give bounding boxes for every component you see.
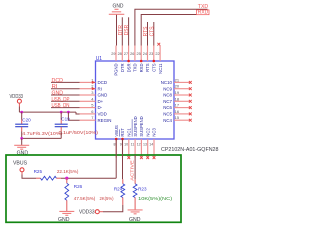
lead R24 top [122, 179, 124, 184]
svg-text:GND: GND [129, 217, 141, 223]
wire SUSPENDb pin down to R23 [134, 155, 136, 179]
lead C19 bottom [60, 127, 62, 132]
resistor R23 [133, 184, 137, 198]
svg-text:17: 17 [175, 103, 180, 108]
ground symbol top (inverted) [109, 9, 125, 14]
svg-text:12: 12 [137, 143, 141, 147]
lead C20 top [21, 120, 23, 125]
power port circle VBUS [20, 168, 24, 172]
pin 28 DTR stub [121, 46, 123, 62]
svg-text:R23: R23 [138, 186, 147, 191]
ground symbol R23 [128, 210, 143, 214]
pin 27 DSR stub [128, 46, 130, 62]
junction dot VBUS pin [115, 138, 118, 141]
wire rail step to VDD pin [76, 112, 80, 114]
junction C19 tap [60, 111, 63, 114]
capacitor C20 [15, 124, 28, 127]
wire GND [51, 94, 80, 96]
pin 24 RTS stub [147, 46, 149, 62]
svg-text:NC6: NC6 [163, 105, 172, 110]
svg-text:VDD33: VDD33 [10, 94, 24, 100]
wire DTR [121, 17, 123, 45]
pin 16 NC5 stub [174, 113, 190, 115]
wire C19 top [60, 112, 62, 119]
svg-text:14: 14 [149, 143, 153, 147]
svg-text:REGIN: REGIN [98, 118, 112, 123]
wire C20 bottom [21, 132, 23, 139]
wire USB_DP [51, 100, 80, 102]
overline SUSPENDb (active low) [131, 119, 133, 136]
lead R25 left [36, 177, 41, 179]
svg-text:R24: R24 [114, 186, 123, 191]
svg-text:RTS: RTS [145, 63, 150, 72]
wire C19 bottom [60, 132, 62, 139]
svg-text:26: 26 [130, 52, 134, 56]
wire REGIN jog [68, 112, 79, 120]
svg-text:27: 27 [124, 52, 128, 56]
pin 15 NC4 stub [174, 119, 190, 121]
pin 20 NC9 stub [174, 88, 190, 90]
svg-text:GND: GND [52, 91, 64, 97]
svg-text:18: 18 [175, 96, 180, 101]
svg-text:NC3: NC3 [152, 128, 157, 137]
arrowhead pin 1 DCD [92, 81, 96, 84]
svg-text:2K(5%): 2K(5%) [100, 196, 114, 201]
lead C19 top [60, 120, 62, 125]
net label RXD box [196, 10, 209, 15]
svg-text:NC7: NC7 [163, 99, 172, 104]
wire to gnd symbol [21, 138, 23, 145]
svg-text:PGND: PGND [114, 64, 119, 76]
svg-text:47.5K(5%): 47.5K(5%) [74, 196, 96, 201]
wire TXD [135, 9, 208, 45]
pin 19 NC8 stub [174, 94, 190, 96]
pin 3 GND stub [80, 94, 96, 96]
pin 6 VDD stub [80, 113, 96, 115]
svg-text:GND: GND [58, 217, 70, 223]
junction dot RST pin [121, 138, 124, 141]
resistor R25 [41, 176, 57, 180]
wire VDD33 stem [18, 107, 20, 113]
svg-text:16: 16 [175, 109, 180, 114]
junction dot CTS pin [153, 60, 156, 63]
pin 25 RXD stub [140, 46, 142, 62]
svg-text:8: 8 [114, 143, 116, 147]
wire RI [51, 88, 80, 90]
pin 5 D- stub [80, 107, 96, 109]
junction C20 tap [20, 111, 23, 114]
svg-text:RST: RST [120, 128, 125, 137]
lead VBUS port [21, 172, 23, 175]
pin 26 TXD stub [134, 46, 136, 62]
wire PGND to GND symbol [116, 14, 118, 45]
pin 4 D+ stub [80, 100, 96, 102]
svg-text:RI: RI [52, 84, 58, 90]
wire RTS [147, 22, 149, 46]
svg-text:VBUS: VBUS [114, 125, 119, 137]
junction dot RXD pin [140, 60, 143, 63]
svg-text:10K(5%)(NC): 10K(5%)(NC) [138, 196, 173, 201]
svg-text:SUSPEND: SUSPEND [133, 116, 138, 136]
lead R23 top [134, 179, 136, 184]
no-connect X pin 16 [189, 113, 192, 116]
svg-text:TXD: TXD [133, 64, 138, 72]
wire R24 bottom to VDD33 [103, 205, 123, 212]
svg-text:28: 28 [118, 52, 122, 56]
svg-text:RXD: RXD [198, 10, 209, 16]
svg-text:DSR: DSR [126, 64, 131, 73]
svg-text:VBUS: VBUS [13, 161, 28, 167]
svg-text:D-: D- [98, 105, 103, 110]
pin 8 VBUS stub [115, 139, 117, 158]
ground symbol left [14, 145, 29, 149]
wire DCD [51, 81, 80, 83]
svg-text:VDD33: VDD33 [79, 209, 95, 215]
pin 1 DCD stub [80, 81, 96, 83]
svg-text:DTR: DTR [118, 25, 124, 36]
svg-text:D+: D+ [98, 99, 104, 104]
lead R24 bottom [122, 198, 124, 206]
svg-text:25: 25 [136, 52, 140, 56]
pin 10 NC1 stub [128, 139, 130, 158]
wire C20 top [21, 112, 23, 119]
pin 18 NC7 stub [174, 100, 190, 102]
svg-text:29: 29 [111, 52, 115, 56]
svg-text:NC2: NC2 [145, 128, 150, 137]
wire VBUS to R25 [22, 175, 36, 179]
no-connect X pin 18 [189, 100, 192, 103]
svg-text:9: 9 [120, 143, 122, 147]
green highlight box [6, 155, 181, 222]
wire DSR [128, 17, 130, 45]
pin 2 RI stub [80, 88, 96, 90]
wire R25 to VBUS pin [61, 177, 116, 179]
svg-text:ACTIVE: ACTIVE [129, 160, 134, 181]
svg-text:RTS: RTS [143, 26, 149, 37]
wire USB_DN [51, 107, 80, 109]
no-connect X pin 19 [189, 94, 192, 97]
pin 7 REGIN stub [80, 119, 96, 121]
svg-text:NC11: NC11 [158, 63, 163, 74]
resistor R24 [121, 184, 125, 198]
wire R26 bottom lead [66, 200, 68, 211]
wire R26 top lead [66, 178, 68, 183]
svg-text:DSR: DSR [124, 24, 130, 35]
arrowhead pin 2 RI [92, 87, 96, 90]
svg-text:DCD: DCD [52, 78, 64, 84]
no-connect X pin 20 [189, 87, 192, 90]
no-connect X SUSPEND [140, 156, 143, 159]
pin 21 NC10 stub [174, 81, 190, 83]
junction R26 branch [65, 177, 68, 180]
svg-text:RI: RI [98, 86, 102, 91]
wire VBUS pin down [115, 139, 117, 178]
junction dot DSR pin [127, 60, 130, 63]
svg-text:15: 15 [175, 115, 180, 120]
svg-text:NC5: NC5 [163, 112, 172, 117]
pin 29 PGND stub [115, 46, 117, 62]
power port circle VDD33 [17, 99, 21, 103]
pin 11 SUSPEND stub [134, 139, 136, 158]
pin 14 NC3 stub [153, 139, 155, 158]
svg-text:USB_DP: USB_DP [52, 97, 71, 103]
svg-text:4.7uF/6.3V(10%): 4.7uF/6.3V(10%) [22, 131, 63, 136]
power port circle VDD33 bottom [95, 210, 99, 214]
pin 9 RST stub [122, 139, 124, 158]
svg-text:C19: C19 [61, 116, 70, 121]
svg-text:GND: GND [98, 93, 108, 98]
pin 12 SUSPEND stub [140, 139, 142, 158]
no-connect X NC11 [157, 43, 160, 46]
svg-text:20: 20 [175, 84, 180, 89]
no-connect X pin 15 [189, 119, 192, 122]
svg-text:USB_DN: USB_DN [52, 103, 70, 109]
svg-text:VDD: VDD [98, 112, 107, 117]
svg-text:NC10: NC10 [161, 80, 173, 85]
svg-text:CTS: CTS [152, 63, 157, 72]
svg-text:NC9: NC9 [163, 86, 172, 91]
overline RST (active low) [119, 129, 121, 136]
svg-text:13: 13 [143, 143, 147, 147]
svg-text:22.1K(5%): 22.1K(5%) [57, 169, 79, 174]
svg-text:RXD: RXD [139, 64, 144, 73]
svg-text:SUSPEND: SUSPEND [139, 116, 144, 136]
svg-text:21: 21 [175, 77, 180, 82]
junction gnd rail [20, 137, 23, 140]
svg-text:24: 24 [143, 52, 147, 56]
no-connect X NC2 [146, 156, 149, 159]
svg-text:22: 22 [155, 52, 159, 56]
lead C20 bottom [21, 127, 23, 132]
wire RST pin down to R24 [122, 139, 124, 179]
lead R25 right [56, 177, 61, 179]
svg-text:23: 23 [149, 52, 153, 56]
svg-text:CTS: CTS [149, 26, 155, 37]
ground symbol R26 [59, 211, 74, 215]
lead VDD33 port bottom [99, 211, 103, 213]
svg-text:NC4: NC4 [163, 118, 172, 123]
wire R23 bottom lead [134, 198, 136, 210]
svg-text:NC8: NC8 [163, 93, 172, 98]
no-connect X pin 21 [189, 81, 192, 84]
no-connect X NC1 [127, 156, 130, 159]
capacitor C19 [55, 124, 68, 127]
wire gnd rail [22, 137, 62, 139]
wire RXD [141, 15, 196, 46]
svg-text:10: 10 [124, 143, 128, 147]
wire VDD33 rail [19, 111, 76, 113]
lead VDD33 port [18, 103, 20, 106]
svg-text:11: 11 [131, 143, 135, 147]
svg-text:DTR: DTR [120, 64, 125, 73]
svg-text:19: 19 [175, 90, 180, 95]
resistor R26 [65, 183, 69, 200]
svg-text:NC1: NC1 [127, 128, 132, 137]
pin 17 NC6 stub [174, 107, 190, 109]
svg-text:R26: R26 [74, 184, 83, 189]
svg-text:CP2102N-A01-GQFN28: CP2102N-A01-GQFN28 [161, 147, 219, 153]
svg-text:R25: R25 [34, 169, 43, 174]
svg-text:GND: GND [113, 4, 124, 10]
wire CTS [153, 22, 155, 46]
no-connect X NC3 [153, 156, 156, 159]
svg-text:U1: U1 [96, 56, 103, 62]
svg-text:C20: C20 [22, 117, 31, 122]
op-amp U1 CP2102N body [96, 61, 175, 139]
pin 23 CTS stub [153, 46, 155, 62]
junction REGIN branch [67, 111, 70, 114]
svg-text:DCD: DCD [98, 80, 108, 85]
no-connect X pin 17 [189, 106, 192, 109]
svg-text:0.1uF/50V(10%): 0.1uF/50V(10%) [59, 130, 99, 135]
pin 22 NC11 stub [159, 46, 161, 62]
pin 13 NC2 stub [147, 139, 149, 158]
